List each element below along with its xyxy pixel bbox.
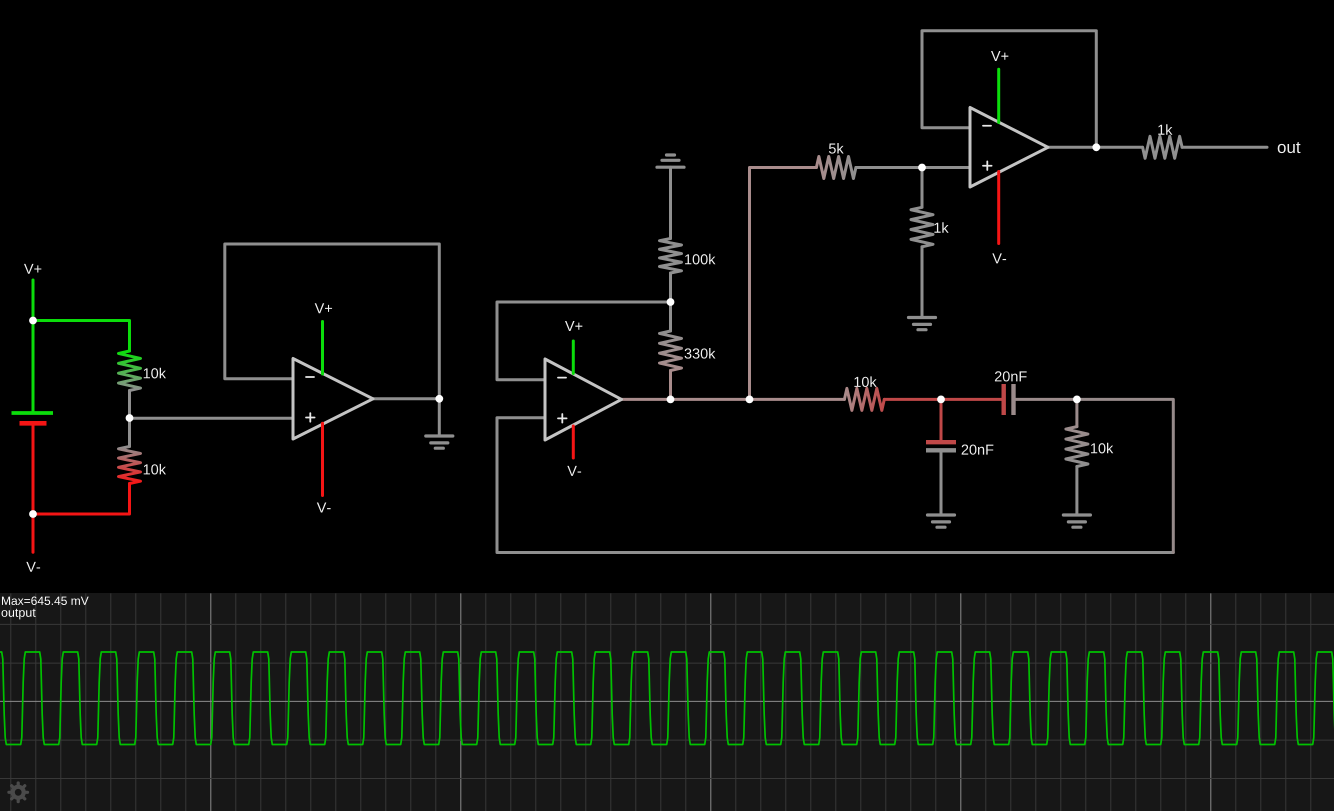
label 1k (R6) [934, 222, 948, 233]
wire U1 output to ground [438, 399, 441, 436]
wire node to R6 1k [921, 168, 924, 208]
wire U2 V+ supply [572, 341, 575, 374]
node left V+ junction [29, 317, 37, 325]
wire node to R4 330k [669, 302, 672, 331]
wire R6 to ground [921, 247, 924, 318]
wire U2 V- supply [572, 426, 575, 458]
node 5k/1k junction [918, 164, 926, 172]
capacitor C1 20nF (series) plate right [1011, 384, 1015, 415]
ground (C2) [928, 513, 955, 516]
capacitor C2 20nF (shunt) plate bottom [926, 448, 956, 452]
wire V+ rail down to battery [32, 280, 35, 411]
wire ground to R3 [669, 167, 672, 238]
label V- (U3) [992, 253, 1006, 263]
label 10k (R8) [854, 376, 876, 387]
node divider mid [126, 414, 134, 422]
resistor R5 5k [816, 157, 856, 179]
label V+ (left supply) [24, 264, 41, 274]
label 10k (R9) [1091, 443, 1113, 454]
op-amp U3 [970, 108, 1048, 188]
wire R8 to cap node [884, 398, 1002, 401]
wire out node to right feedback riser [1077, 399, 1173, 552]
node C1/10k junction [1073, 396, 1081, 404]
wire 5k to U3 + input [856, 166, 970, 169]
wire filter mid down to C2 [940, 399, 943, 440]
label 5k [829, 143, 844, 154]
resistor R7 1k (output) [1143, 136, 1183, 158]
wire U1 V- supply [321, 423, 324, 495]
label 10k (R2) [144, 464, 166, 475]
node filter mid [937, 396, 945, 404]
voltage source V1 plate - [20, 421, 47, 426]
ground (U1 output) [426, 434, 453, 437]
capacitor C1 20nF (series) plate left [1002, 384, 1006, 415]
wire mid node down to R2 [128, 418, 131, 447]
node 100k/330k junction [667, 298, 675, 306]
label V+ (U3) [991, 51, 1008, 61]
resistor R3 100k [660, 239, 682, 274]
label 1k (R7) [1158, 124, 1172, 135]
label V+ (U1) [315, 303, 332, 313]
resistor R9 10k (filter shunt) [1066, 427, 1088, 467]
wire mid node to op-amp U1 + input [130, 417, 294, 420]
node U3 output [1092, 143, 1100, 151]
wire U1 output [373, 397, 439, 400]
wire node to U2 - input (left loop) [497, 302, 671, 380]
node left V- junction [29, 510, 37, 518]
wire R4 bottom to U2 output line [669, 371, 672, 400]
wire U3 output [1048, 146, 1143, 149]
label 20nF (C2) [962, 444, 994, 454]
wire R7 to out terminal [1182, 146, 1267, 149]
node U2 output / feedback riser [746, 396, 754, 404]
label 10k (R1) [144, 368, 166, 379]
wire U3 V- supply [997, 172, 1000, 244]
scope label Max [2, 597, 89, 605]
node U2 output / 330k [667, 396, 675, 404]
capacitor C2 20nF (shunt) plate top [926, 440, 956, 444]
wire U1 feedback loop box [225, 244, 439, 399]
label 330k [685, 348, 716, 359]
label V- (U1) [317, 503, 331, 513]
ground (top of 100k) [657, 166, 684, 169]
wire R9 to ground [1075, 467, 1078, 516]
scope grid horizontal lines [0, 623, 1334, 625]
resistor R1 10k (upper divider) [119, 351, 141, 391]
wire R2 bottom to V- rail [33, 484, 130, 515]
label V- (U2) [567, 466, 581, 476]
ground (R9) [1063, 513, 1090, 516]
resistor R4 330k [660, 331, 682, 371]
wire U2 + input to bottom feedback rail [497, 418, 1173, 553]
scope trace: output waveform [0, 652, 1334, 745]
wire node to R9 10k [1075, 399, 1078, 426]
wire U2 output line [622, 398, 845, 401]
label V- (left supply) [26, 562, 40, 572]
node U1 output [435, 395, 443, 403]
op-amp U1 [293, 359, 373, 440]
wire V+ node to divider top [33, 321, 130, 352]
wire U3 V+ supply [997, 69, 1000, 122]
wire C1 to out node [1016, 398, 1077, 401]
wire U1 V+ supply [321, 322, 324, 375]
scope label output [2, 609, 36, 620]
wire feedback riser up to 5k [750, 168, 817, 400]
wire R1 bottom to mid node [128, 391, 131, 419]
resistor R8 10k (filter series) [844, 388, 884, 410]
resistor R6 1k [911, 207, 933, 247]
label 100k [685, 254, 715, 265]
label V+ (U2) [565, 321, 582, 331]
ground (R6) [909, 316, 936, 319]
resistor R2 10k (lower divider) [119, 447, 141, 484]
wire U3 feedback loop box [922, 31, 1096, 148]
oscilloscope background panel [0, 593, 1334, 811]
scope grid vertical lines [10, 593, 12, 811]
wire C2 to ground [940, 453, 943, 516]
label out [1278, 142, 1301, 153]
label 20nF (C1) [995, 371, 1027, 381]
scope settings gear icon [9, 783, 28, 802]
op-amp U2 [545, 359, 622, 440]
voltage source V1 plate + [12, 411, 54, 415]
wire R3 to node [669, 273, 672, 302]
wire V- rail [32, 426, 35, 553]
